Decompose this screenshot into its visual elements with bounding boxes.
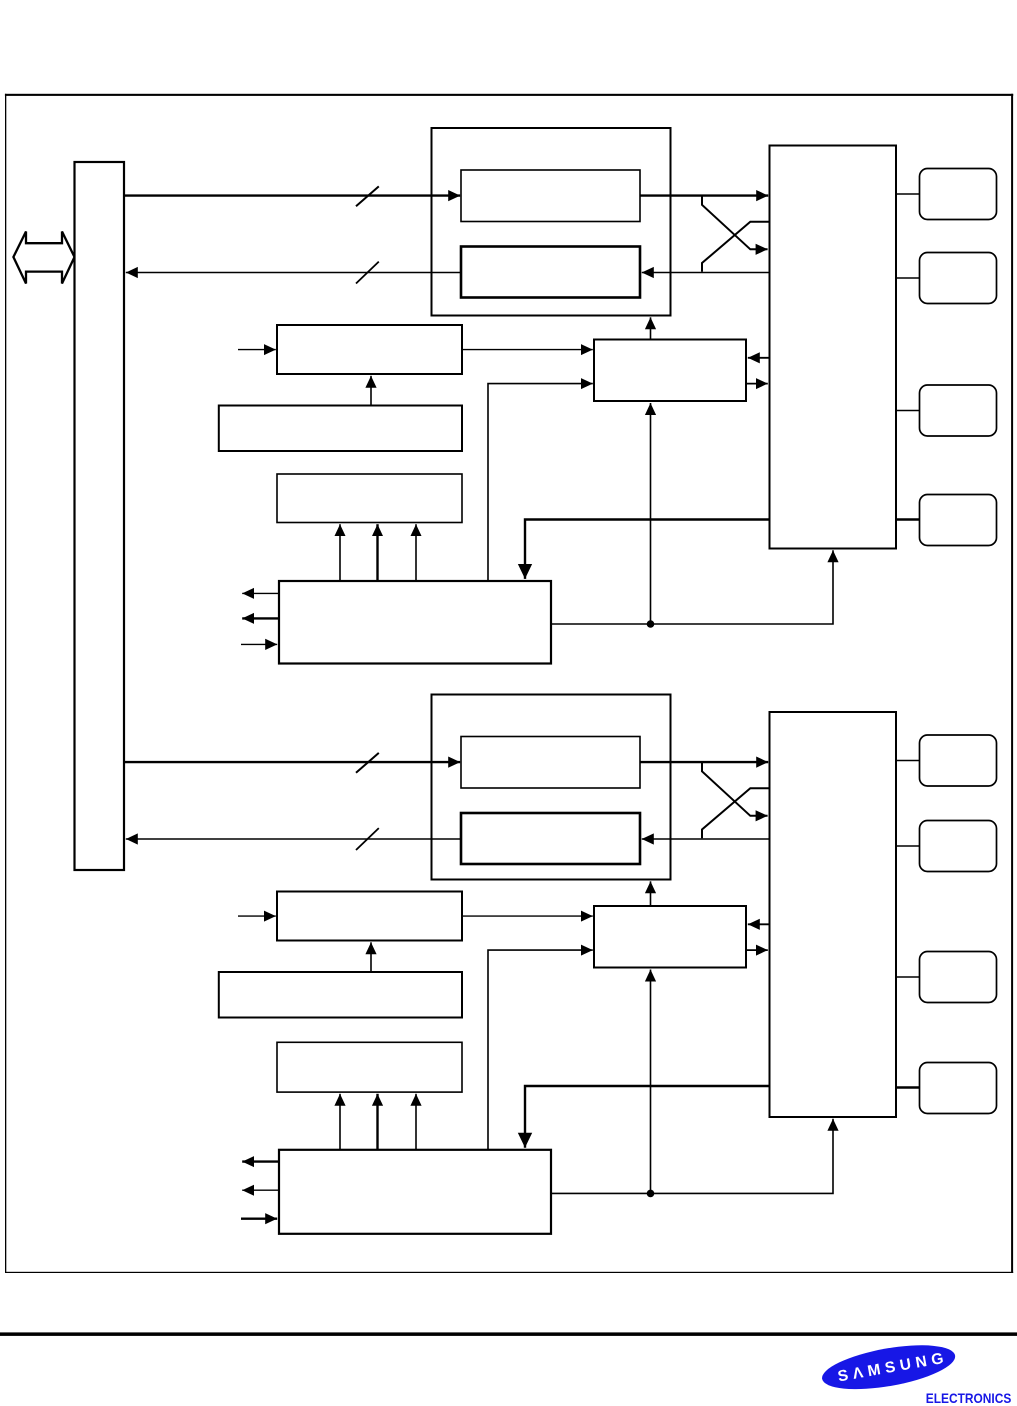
wire: UART1 pad logic to control unit bbox=[748, 923, 770, 925]
UART1 I/O pad logic box bbox=[770, 712, 897, 1117]
wire: UART1 baud rate generator to control unit bbox=[462, 915, 593, 917]
UART0 interrupt / DMA logic box bbox=[279, 581, 551, 664]
UART0 baud rate generator box bbox=[277, 325, 462, 374]
UART1 receive shift register box bbox=[461, 813, 640, 864]
wire: UART0 control unit to pad logic bbox=[746, 383, 768, 385]
UART1 shift-register unit container box bbox=[432, 695, 671, 880]
wire: UART0 stub to CTS pad bbox=[896, 518, 920, 520]
UART0 RXD pad bbox=[920, 253, 997, 304]
UART0 RTS pad bbox=[920, 385, 997, 436]
wire: UART1 control unit to pad logic bbox=[746, 949, 768, 951]
wire: UART1 RX crossover from pad logic bbox=[702, 788, 770, 838]
UART0 TXD pad bbox=[920, 169, 997, 220]
wire: UART1 interrupt request output 2 bbox=[242, 1189, 279, 1191]
page frame right edge bbox=[1011, 94, 1013, 1273]
wire: UART1 TX shift register output to pad logic bbox=[640, 761, 768, 763]
wire: UART1 RX input to receive shift register bbox=[642, 838, 770, 840]
wire: UART0 stub to RTS pad bbox=[896, 410, 920, 412]
UART1 control unit box bbox=[594, 906, 746, 968]
wire: UART0 status flag arrow 2 bbox=[376, 524, 378, 580]
UART0 RX bus-width slash bbox=[356, 262, 379, 284]
data bus buffer box bbox=[75, 162, 125, 870]
wire: UART0 RX data bus to bus buffer bbox=[126, 272, 461, 274]
UART1 interrupt / DMA logic box bbox=[279, 1150, 551, 1234]
wire: UART1 junction to control unit bottom bbox=[650, 970, 652, 1194]
UART0 TX bus-width slash bbox=[356, 186, 379, 206]
footer horizontal rule bbox=[0, 1332, 1017, 1336]
wire: UART0 status flag arrow 1 bbox=[339, 524, 341, 580]
wire: UART0 interrupt logic output to pad logic bottom bbox=[551, 550, 833, 624]
wire: UART1 stub to CTS pad bbox=[896, 1086, 920, 1088]
wire: UART0 pad logic feed to interrupt logic bbox=[525, 520, 770, 579]
wire: UART1 divisor register to baud rate generator bbox=[370, 942, 372, 972]
wire: UART1 stub to RXD pad bbox=[896, 845, 920, 847]
UART0 status register box bbox=[277, 474, 462, 523]
UART0 control unit box bbox=[594, 340, 746, 402]
UART0 transmit shift register box bbox=[461, 170, 640, 222]
wire: UART1 status flag arrow 1 bbox=[339, 1094, 341, 1150]
page frame top edge bbox=[5, 94, 1013, 96]
UART1 TX bus-width slash bbox=[356, 753, 379, 773]
UART1 RTS pad bbox=[920, 952, 997, 1003]
wire: UART0 pad logic to control unit bbox=[748, 357, 770, 359]
UART1 transmit shift register box bbox=[461, 737, 640, 789]
wire: UART0 interrupt logic to control unit input bbox=[488, 384, 593, 581]
wire: UART0 TX data bus from bus buffer bbox=[124, 194, 460, 196]
wire: UART0 control unit to shift registers bbox=[650, 317, 652, 339]
wire: UART0 interrupt request output 2 bbox=[242, 617, 279, 619]
wire: UART1 interrupt logic to control unit input bbox=[488, 950, 593, 1149]
wire: UART0 RX input to receive shift register bbox=[642, 272, 770, 274]
svg-text:ELECTRONICS: ELECTRONICS bbox=[926, 1391, 1012, 1406]
wire: UART1 pad logic feed to interrupt logic bbox=[525, 1086, 770, 1148]
wire: UART0 junction to control unit bottom bbox=[650, 403, 652, 624]
system data bus bidirectional arrow bbox=[13, 232, 74, 284]
wire: UART1 stub to RTS pad bbox=[896, 976, 920, 978]
wire: UART1 clock input arrow bbox=[238, 915, 276, 917]
UART1 baud rate divisor register box bbox=[219, 972, 462, 1018]
wire: UART0 TX shift register output to pad logic bbox=[640, 194, 768, 196]
wire: UART1 status flag arrow 3 bbox=[415, 1094, 417, 1150]
UART1 RXD pad bbox=[920, 821, 997, 872]
wire: UART0 clock input arrow bbox=[238, 349, 276, 351]
page frame left edge bbox=[5, 94, 6, 1273]
wire: UART1 stub to TXD pad bbox=[896, 760, 920, 762]
junction node UART1 bbox=[647, 1190, 655, 1198]
wire: UART0 interrupt request output 1 bbox=[242, 592, 279, 594]
wire: UART0 RX crossover from pad logic bbox=[702, 222, 770, 272]
wire: UART1 control unit to shift registers bbox=[650, 881, 652, 905]
wire: UART0 divisor register to baud rate generator bbox=[370, 376, 372, 406]
UART0 CTS pad bbox=[920, 495, 997, 546]
junction node UART0 bbox=[647, 620, 655, 628]
wire: UART1 acknowledge input bbox=[241, 1217, 277, 1219]
Samsung logo ellipse bbox=[819, 1337, 958, 1397]
wire: UART0 status flag arrow 3 bbox=[415, 524, 417, 580]
wire: UART1 TX crossover branch to second pad input bbox=[702, 762, 768, 816]
UART1 CTS pad bbox=[920, 1063, 997, 1114]
UART0 shift-register unit container box bbox=[432, 128, 671, 316]
wire: UART1 TX data bus from bus buffer bbox=[124, 761, 460, 763]
wire: UART1 RX data bus to bus buffer bbox=[126, 838, 461, 840]
wire: UART1 status flag arrow 2 bbox=[376, 1094, 378, 1150]
UART1 baud rate generator box bbox=[277, 892, 462, 941]
wire: UART0 stub to RXD pad bbox=[896, 277, 920, 279]
page frame bottom edge bbox=[5, 1272, 1013, 1273]
wire: UART0 TX crossover branch to second pad input bbox=[702, 196, 768, 250]
UART0 I/O pad logic box bbox=[770, 146, 897, 549]
UART1 RX bus-width slash bbox=[356, 828, 379, 850]
UART1 status register box bbox=[277, 1042, 462, 1092]
wire: UART0 acknowledge input bbox=[241, 643, 277, 645]
UART0 receive shift register box bbox=[461, 247, 640, 298]
wire: UART0 stub to TXD pad bbox=[896, 193, 920, 195]
wire: UART1 interrupt request output 1 bbox=[242, 1160, 279, 1162]
UART0 baud rate divisor register box bbox=[219, 406, 462, 452]
wire: UART0 baud rate generator to control unit bbox=[462, 349, 593, 351]
UART1 TXD pad bbox=[920, 735, 997, 786]
wire: UART1 interrupt logic output to pad logic bottom bbox=[551, 1119, 833, 1194]
